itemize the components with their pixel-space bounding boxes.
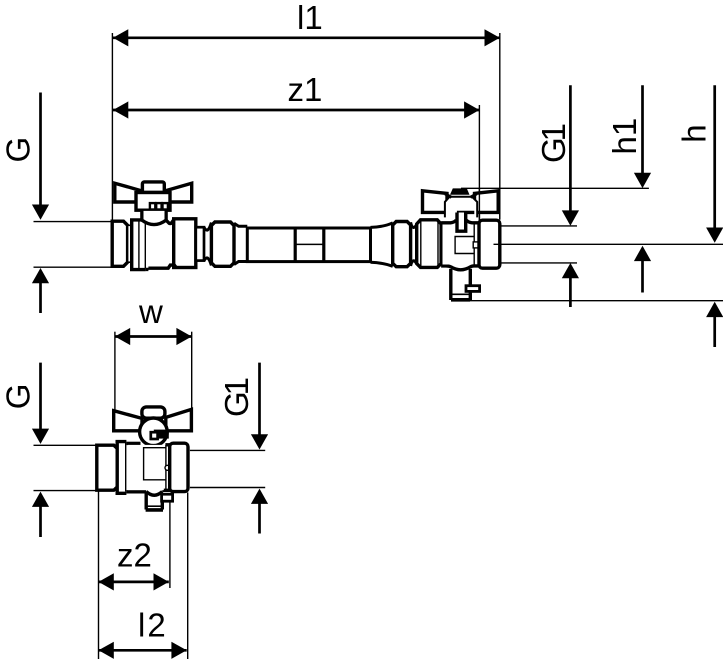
valve 2 stem — [457, 213, 466, 232]
valve 3 thread — [97, 445, 117, 490]
dimension G1 arrows — [562, 85, 579, 307]
valve 3 drain shoulder — [146, 492, 162, 496]
dimension G1 bottom arrows — [251, 363, 268, 534]
valve 3 handle cap — [142, 407, 165, 418]
valve 2 handle dome — [445, 197, 477, 218]
svg-text:h1: h1 — [606, 118, 643, 155]
valve 1 outlet neck — [196, 227, 204, 260]
valve 2 drain shoulder — [451, 267, 471, 270]
svg-text:w: w — [138, 293, 163, 330]
svg-text:G: G — [0, 137, 36, 163]
dimension G bottom arrows — [32, 363, 49, 537]
valve 1 neck — [128, 225, 132, 262]
dimension l2 — [99, 642, 187, 659]
hose band — [294, 227, 297, 263]
valve 2 stem flange — [457, 211, 474, 214]
valve 3 drain cap — [147, 505, 161, 507]
valve 1 joint notch top — [166, 220, 174, 224]
svg-text:h: h — [676, 124, 713, 142]
centerline reference — [494, 243, 723, 245]
valve 3 joint lines — [165, 445, 167, 490]
valve 3 drain nipple — [162, 494, 173, 501]
dimension w — [115, 328, 192, 345]
dimension h1 arrows — [634, 85, 651, 292]
valve 2 body top edge — [441, 220, 456, 223]
hose nut 1 — [211, 222, 234, 266]
valve 2 drain cap — [452, 293, 469, 295]
valve 2 joint double lines — [473, 224, 475, 266]
valve 2 body bottom edge — [441, 266, 451, 268]
valve 1 body — [147, 223, 174, 267]
svg-text:l1: l1 — [297, 0, 323, 36]
G reference lines — [34, 221, 113, 223]
valve 1 handle: right wing — [166, 183, 192, 202]
valve 2 drain nipple — [466, 286, 480, 292]
valve 3 drain body — [144, 493, 147, 510]
hose waist 4 — [411, 222, 417, 227]
h1 reference line — [461, 187, 649, 189]
svg-text:z2: z2 — [117, 536, 152, 573]
hose waist left — [204, 223, 211, 231]
hose waist 3 — [371, 223, 393, 228]
valve 3 handle notch — [154, 430, 169, 439]
dimension z1 — [113, 101, 479, 118]
valve 3 handle hub — [140, 418, 168, 446]
valve 1 hex — [132, 220, 146, 270]
valve 3 hex — [117, 442, 126, 494]
valve 1 stem — [142, 211, 166, 221]
dimension l1 — [113, 29, 500, 46]
extension line left (l1/z1) — [111, 33, 113, 221]
svg-text:G: G — [0, 384, 36, 410]
valve 2 outlet — [479, 220, 500, 268]
svg-text:l2: l2 — [138, 606, 168, 643]
valve 1 handle: cap — [142, 182, 164, 193]
valve 2 drain body — [449, 269, 452, 300]
valve 1 outlet hex — [174, 219, 196, 268]
valve 2 joint square — [473, 242, 479, 248]
valve 1 handle: knurl squares — [150, 203, 155, 209]
valve 1 body saddle edge — [142, 220, 166, 225]
svg-text:z1: z1 — [288, 71, 323, 108]
bottom extension lines — [98, 491, 100, 660]
valve 3 detail circle — [165, 465, 170, 470]
extension line right l1 over handle — [499, 188, 501, 220]
h bottom reference line — [470, 300, 723, 302]
valve 1 thread — [112, 221, 127, 266]
hose tube — [247, 228, 370, 262]
hose waist 2 — [234, 223, 247, 226]
extension line right z1 over handle — [478, 189, 480, 223]
G1 reference lines — [500, 225, 577, 227]
valve 3 handle square — [151, 432, 158, 439]
valve 2 handle wing-cap joints — [445, 194, 477, 198]
dimension h arrows — [706, 85, 723, 347]
extension line right l1 — [499, 33, 501, 220]
valve 1 handle: hub — [136, 193, 170, 211]
svg-text:G1: G1 — [218, 378, 255, 417]
union nut valve 2 — [417, 220, 441, 268]
valve 2 handle right wing — [475, 191, 499, 213]
w extension lines — [114, 332, 116, 411]
valve 3 inner contour — [144, 448, 166, 480]
valve 2 handle cap (dark) — [450, 188, 470, 194]
valve 2 inner contour — [455, 237, 474, 254]
extension line right z1 — [478, 105, 480, 223]
valve 3 outlet — [170, 443, 188, 491]
hose nut 2 — [393, 222, 411, 267]
valve 3 handle right wing — [166, 409, 192, 430]
valve 3 handle left wing — [114, 411, 142, 431]
G bottom reference lines — [34, 444, 98, 446]
svg-text:G1: G1 — [535, 124, 572, 163]
valve 2 left body edge fill — [443, 225, 472, 265]
valve 1 body bottom edge — [146, 265, 177, 269]
dimension z2 — [99, 573, 169, 590]
dimension G arrows — [32, 93, 49, 314]
G1 bottom reference lines — [190, 449, 265, 451]
valve 2 handle left wing — [423, 191, 448, 213]
valve 3 body — [126, 442, 140, 445]
valve 1 handle: left wing — [115, 183, 141, 202]
